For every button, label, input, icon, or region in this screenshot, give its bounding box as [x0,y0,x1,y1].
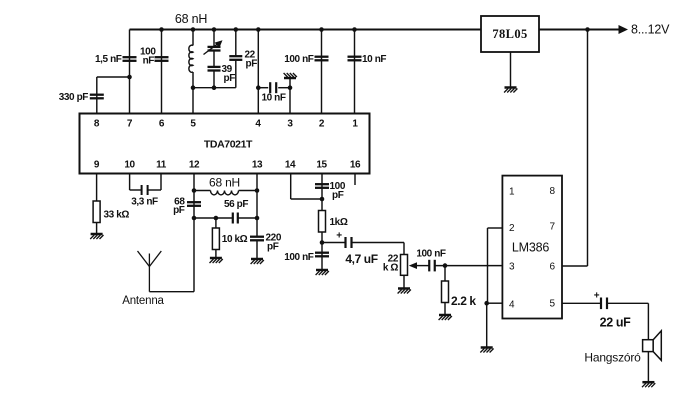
svg-text:11: 11 [156,160,167,171]
svg-text:8: 8 [549,186,555,197]
svg-text:100 nF: 100 nF [284,54,314,65]
svg-text:100 nF: 100 nF [416,249,446,260]
svg-text:68 nH: 68 nH [209,176,240,190]
svg-text:+: + [336,231,342,242]
svg-text:2: 2 [509,223,515,234]
svg-text:13: 13 [252,160,263,171]
svg-text:78L05: 78L05 [492,27,527,41]
svg-text:k Ω: k Ω [383,263,399,274]
svg-text:4: 4 [255,119,261,130]
svg-text:68 nH: 68 nH [175,12,208,26]
svg-text:pF: pF [224,73,236,84]
svg-text:pF: pF [332,190,344,201]
svg-text:1: 1 [509,187,515,198]
svg-text:9: 9 [94,160,100,171]
svg-text:330 pF: 330 pF [59,92,89,103]
svg-text:nF: nF [143,56,155,67]
svg-text:6: 6 [159,119,165,130]
svg-text:12: 12 [189,160,200,171]
svg-text:15: 15 [316,160,327,171]
svg-text:3: 3 [509,262,515,273]
svg-text:Antenna: Antenna [122,295,164,307]
svg-text:pF: pF [267,242,279,253]
svg-text:1kΩ: 1kΩ [330,217,348,228]
svg-text:4,7 uF: 4,7 uF [345,252,377,266]
svg-text:1,5 nF: 1,5 nF [95,54,122,65]
svg-text:7: 7 [549,222,555,233]
svg-text:10 nF: 10 nF [362,54,386,65]
svg-text:2: 2 [319,119,325,130]
svg-text:56 pF: 56 pF [224,199,248,210]
svg-text:TDA7021T: TDA7021T [204,139,253,151]
svg-text:8...12V: 8...12V [631,23,670,37]
svg-text:10: 10 [124,160,135,171]
svg-text:5: 5 [190,119,196,130]
svg-text:8: 8 [94,119,100,130]
svg-text:5: 5 [549,299,555,310]
svg-text:3: 3 [287,119,293,130]
svg-text:10 kΩ: 10 kΩ [222,234,248,245]
svg-text:Hangszóró: Hangszóró [584,351,641,365]
svg-text:10 nF: 10 nF [261,93,285,104]
svg-text:pF: pF [173,205,185,216]
svg-text:1: 1 [352,119,358,130]
svg-text:33 kΩ: 33 kΩ [104,210,130,221]
svg-text:+: + [594,291,600,302]
svg-text:LM386: LM386 [512,241,549,255]
svg-text:4: 4 [509,300,515,311]
svg-text:3,3 nF: 3,3 nF [131,197,158,208]
svg-text:14: 14 [285,160,296,171]
svg-text:6: 6 [549,262,555,273]
svg-text:2.2 k: 2.2 k [451,294,476,308]
svg-text:pF: pF [246,59,258,70]
svg-text:16: 16 [350,160,361,171]
svg-text:22 uF: 22 uF [600,316,631,330]
svg-text:100 nF: 100 nF [284,252,314,263]
svg-text:7: 7 [127,119,133,130]
